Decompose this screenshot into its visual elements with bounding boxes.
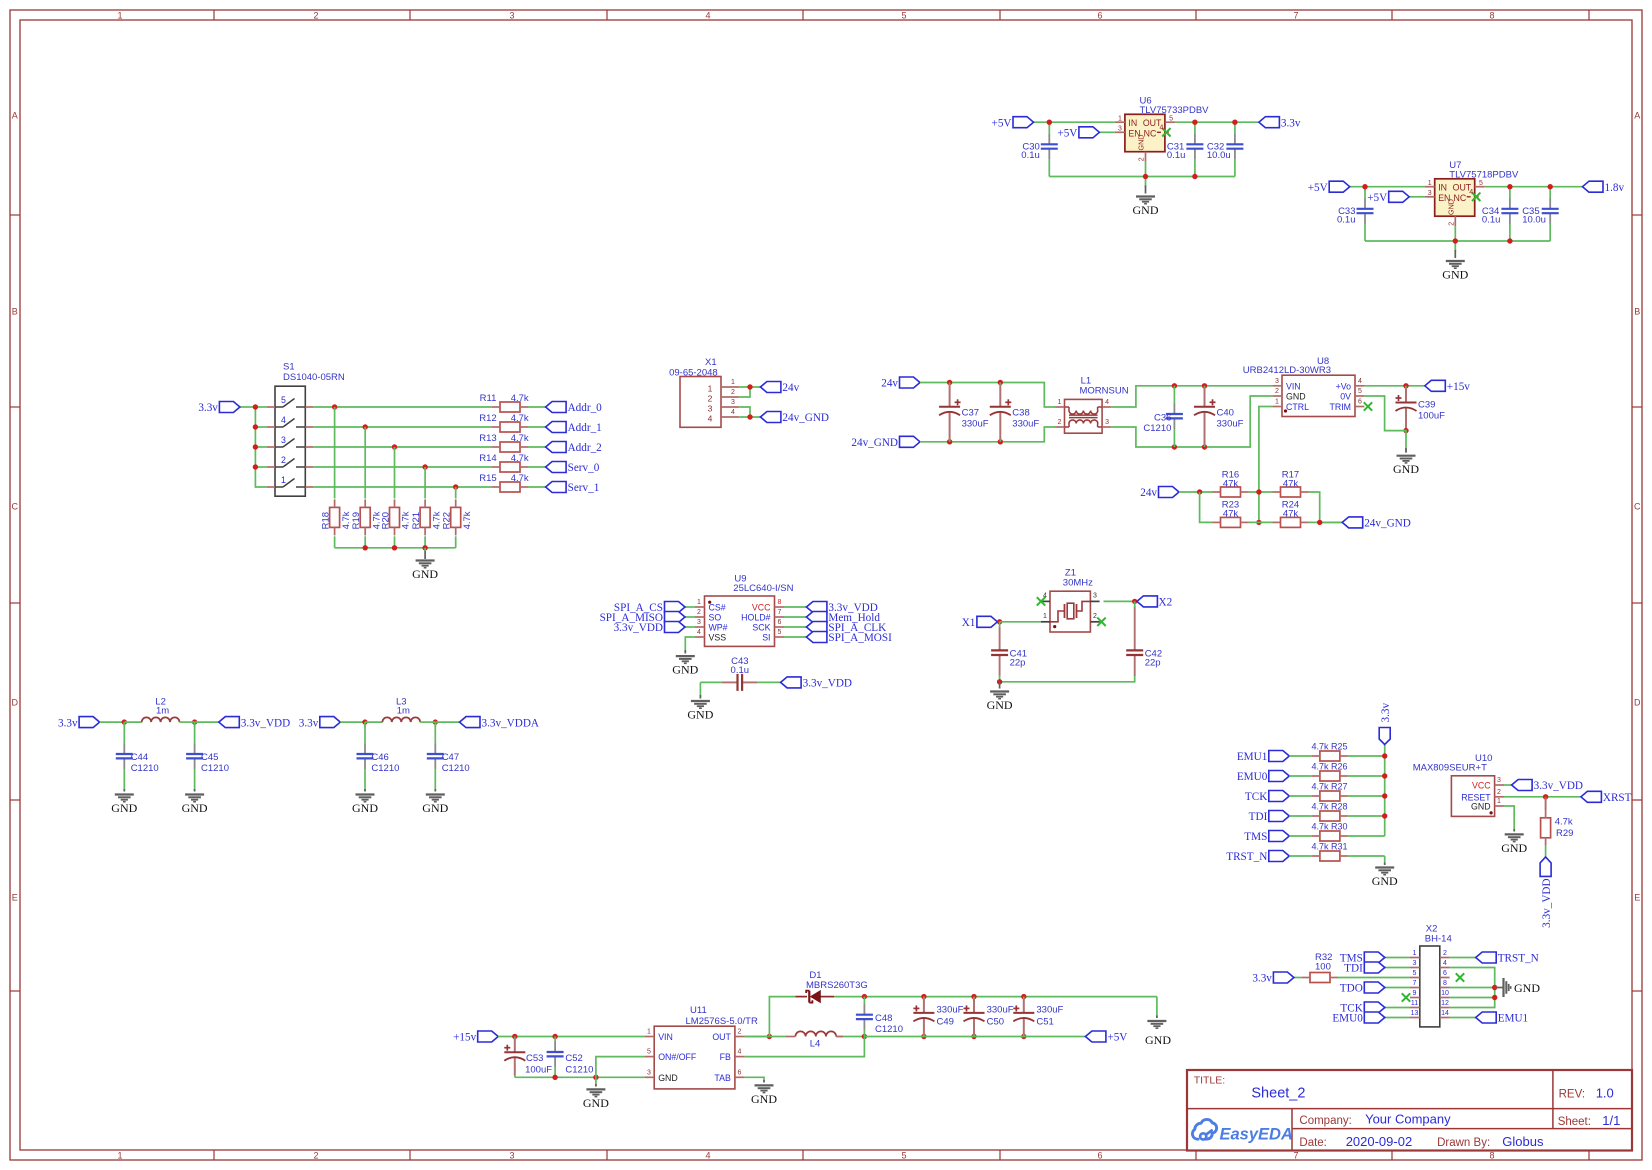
svg-text:Globus: Globus xyxy=(1502,1134,1544,1149)
svg-text:4.7k: 4.7k xyxy=(511,393,529,404)
svg-text:GND: GND xyxy=(658,1073,678,1083)
svg-text:47k: 47k xyxy=(1223,479,1239,490)
svg-text:4.7k R28: 4.7k R28 xyxy=(1312,802,1348,812)
svg-text:3: 3 xyxy=(509,1150,514,1160)
svg-text:30MHz: 30MHz xyxy=(1063,578,1093,589)
svg-text:URB2412LD-30WR3: URB2412LD-30WR3 xyxy=(1243,365,1331,376)
svg-text:ON#/OFF: ON#/OFF xyxy=(658,1052,697,1062)
svg-text:GND: GND xyxy=(412,567,438,581)
svg-text:Addr_0: Addr_0 xyxy=(568,402,603,414)
svg-text:7: 7 xyxy=(1413,980,1417,987)
svg-text:TLV75718PDBV: TLV75718PDBV xyxy=(1449,169,1519,180)
svg-text:R22: R22 xyxy=(442,512,453,529)
svg-text:C49: C49 xyxy=(937,1016,954,1027)
svg-text:2: 2 xyxy=(1448,222,1455,226)
svg-text:6: 6 xyxy=(738,1069,742,1076)
svg-text:VSS: VSS xyxy=(709,633,727,643)
svg-text:C1210: C1210 xyxy=(201,763,229,774)
svg-text:3.3v: 3.3v xyxy=(1281,117,1301,129)
svg-text:EasyEDA: EasyEDA xyxy=(1220,1126,1293,1144)
svg-text:5: 5 xyxy=(1413,970,1417,977)
svg-text:C1210: C1210 xyxy=(442,763,470,774)
svg-text:SO: SO xyxy=(709,613,722,623)
svg-text:Addr_1: Addr_1 xyxy=(568,422,602,434)
svg-text:3: 3 xyxy=(1118,126,1122,133)
svg-text:4.7k: 4.7k xyxy=(1555,817,1573,828)
svg-text:2: 2 xyxy=(313,1150,318,1160)
svg-text:HOLD#: HOLD# xyxy=(741,613,770,623)
svg-text:VCC: VCC xyxy=(1472,781,1491,791)
svg-text:6: 6 xyxy=(778,619,782,626)
svg-text:3: 3 xyxy=(708,404,713,414)
svg-text:3: 3 xyxy=(1413,960,1417,967)
svg-text:MORNSUN: MORNSUN xyxy=(1080,386,1129,397)
svg-text:47k: 47k xyxy=(1283,509,1299,520)
svg-text:C1210: C1210 xyxy=(875,1024,903,1035)
svg-text:330uF: 330uF xyxy=(937,1004,964,1015)
svg-text:C36: C36 xyxy=(1154,412,1171,423)
svg-text:1m: 1m xyxy=(397,706,410,717)
svg-text:C39: C39 xyxy=(1418,400,1435,411)
svg-text:R13: R13 xyxy=(479,433,496,444)
svg-text:TITLE:: TITLE: xyxy=(1194,1074,1226,1086)
svg-text:C40: C40 xyxy=(1217,408,1234,419)
svg-text:4: 4 xyxy=(281,415,286,425)
svg-text:330uF: 330uF xyxy=(1012,419,1039,430)
svg-text:5: 5 xyxy=(778,629,782,636)
svg-text:5: 5 xyxy=(281,395,286,405)
svg-text:4.7k R30: 4.7k R30 xyxy=(1312,822,1348,832)
svg-text:5: 5 xyxy=(901,1150,906,1160)
svg-text:4.7k R25: 4.7k R25 xyxy=(1312,742,1348,752)
svg-text:5: 5 xyxy=(901,10,906,20)
svg-text:1: 1 xyxy=(281,475,286,485)
svg-text:GND: GND xyxy=(751,1092,777,1106)
svg-text:OUT: OUT xyxy=(712,1032,731,1042)
svg-text:+5V: +5V xyxy=(1057,128,1077,140)
svg-text:CTRL: CTRL xyxy=(1286,402,1309,412)
svg-text:R29: R29 xyxy=(1556,828,1573,839)
svg-text:5: 5 xyxy=(1479,180,1483,187)
svg-text:MAX809SEUR+T: MAX809SEUR+T xyxy=(1413,763,1487,774)
svg-text:4: 4 xyxy=(1105,399,1109,406)
svg-text:1.8v: 1.8v xyxy=(1605,182,1625,194)
svg-text:S1: S1 xyxy=(283,361,295,372)
svg-text:DS1040-05RN: DS1040-05RN xyxy=(283,372,345,383)
svg-text:6: 6 xyxy=(1443,970,1447,977)
svg-text:2: 2 xyxy=(281,455,286,465)
svg-text:10.0u: 10.0u xyxy=(1522,215,1546,226)
svg-text:3.3v: 3.3v xyxy=(198,402,218,414)
svg-text:VIN: VIN xyxy=(1286,381,1301,391)
svg-text:C38: C38 xyxy=(1012,408,1029,419)
svg-text:3.3v_VDD: 3.3v_VDD xyxy=(1541,878,1553,927)
svg-text:C1210: C1210 xyxy=(1143,423,1171,434)
svg-text:1: 1 xyxy=(117,1150,122,1160)
svg-text:EMU1: EMU1 xyxy=(1498,1013,1528,1025)
svg-text:TRST_N: TRST_N xyxy=(1498,953,1539,965)
svg-text:GND: GND xyxy=(1514,981,1540,995)
svg-text:6: 6 xyxy=(1097,1150,1102,1160)
svg-text:2: 2 xyxy=(738,1029,742,1036)
svg-text:4: 4 xyxy=(738,1049,742,1056)
svg-text:GND: GND xyxy=(352,801,378,815)
svg-text:VCC: VCC xyxy=(752,603,771,613)
svg-text:4.7k R31: 4.7k R31 xyxy=(1312,842,1348,852)
svg-text:330uF: 330uF xyxy=(1217,419,1244,430)
svg-text:24v: 24v xyxy=(782,382,799,394)
svg-text:24v_GND: 24v_GND xyxy=(851,437,898,449)
svg-text:3: 3 xyxy=(1497,777,1501,784)
svg-text:Date:: Date: xyxy=(1299,1137,1327,1149)
svg-text:GND: GND xyxy=(1501,841,1527,855)
svg-text:25LC640-I/SN: 25LC640-I/SN xyxy=(733,583,793,594)
svg-text:3: 3 xyxy=(281,435,286,445)
svg-text:22p: 22p xyxy=(1145,658,1161,669)
svg-text:12: 12 xyxy=(1441,1000,1449,1007)
svg-text:22p: 22p xyxy=(1010,658,1026,669)
svg-text:2: 2 xyxy=(1275,388,1279,395)
svg-text:R19: R19 xyxy=(351,512,362,529)
svg-text:L4: L4 xyxy=(810,1039,821,1050)
svg-text:1: 1 xyxy=(708,384,713,394)
svg-text:+5V: +5V xyxy=(1367,192,1387,204)
svg-text:8: 8 xyxy=(1489,10,1494,20)
svg-text:330uF: 330uF xyxy=(962,419,989,430)
svg-text:3.3v: 3.3v xyxy=(1252,973,1272,985)
svg-text:C: C xyxy=(12,501,19,511)
svg-text:3: 3 xyxy=(647,1069,651,1076)
svg-text:8: 8 xyxy=(1443,980,1447,987)
svg-text:GND: GND xyxy=(1372,874,1398,888)
svg-text:EMU0: EMU0 xyxy=(1332,1013,1363,1025)
svg-text:8: 8 xyxy=(1489,1150,1494,1160)
svg-text:3: 3 xyxy=(509,10,514,20)
svg-text:MBRS260T3G: MBRS260T3G xyxy=(806,980,868,991)
svg-text:Sheet_2: Sheet_2 xyxy=(1251,1086,1305,1102)
svg-text:1: 1 xyxy=(697,599,701,606)
svg-text:TMS: TMS xyxy=(1244,831,1267,843)
svg-text:1.0: 1.0 xyxy=(1596,1086,1614,1101)
svg-text:7: 7 xyxy=(1293,1150,1298,1160)
svg-text:8: 8 xyxy=(778,599,782,606)
svg-text:SI: SI xyxy=(762,633,770,643)
svg-text:D: D xyxy=(12,697,19,707)
svg-text:E: E xyxy=(12,892,18,902)
svg-text:4.7k: 4.7k xyxy=(511,473,529,484)
svg-text:6: 6 xyxy=(1358,399,1362,406)
svg-text:7: 7 xyxy=(1293,10,1298,20)
svg-text:GND: GND xyxy=(111,801,137,815)
svg-text:100uF: 100uF xyxy=(525,1065,552,1076)
svg-text:3.3v_VDD: 3.3v_VDD xyxy=(241,717,290,729)
svg-text:3.3v_VDDA: 3.3v_VDDA xyxy=(482,717,540,729)
svg-text:3: 3 xyxy=(1428,190,1432,197)
svg-text:C50: C50 xyxy=(987,1016,1004,1027)
svg-text:X2: X2 xyxy=(1159,597,1173,609)
svg-text:3.3v_VDD: 3.3v_VDD xyxy=(614,622,663,634)
svg-text:C47: C47 xyxy=(442,752,459,763)
svg-text:2: 2 xyxy=(731,389,735,396)
svg-text:1: 1 xyxy=(117,10,122,20)
svg-text:TAB: TAB xyxy=(714,1073,731,1083)
svg-text:5: 5 xyxy=(1169,116,1173,123)
svg-text:EMU1: EMU1 xyxy=(1237,751,1267,763)
svg-text:Your Company: Your Company xyxy=(1365,1111,1451,1126)
svg-text:14: 14 xyxy=(1441,1010,1449,1017)
svg-text:4: 4 xyxy=(1469,189,1473,196)
svg-text:2: 2 xyxy=(1497,789,1501,796)
svg-text:R11: R11 xyxy=(480,393,497,404)
svg-text:C51: C51 xyxy=(1036,1016,1053,1027)
svg-text:C1210: C1210 xyxy=(131,763,159,774)
svg-text:GND: GND xyxy=(687,708,713,722)
svg-text:C46: C46 xyxy=(371,752,388,763)
svg-text:3: 3 xyxy=(731,399,735,406)
svg-text:WP#: WP# xyxy=(709,623,728,633)
svg-text:R15: R15 xyxy=(479,473,496,484)
svg-text:2: 2 xyxy=(1139,157,1146,161)
svg-text:4.7k R27: 4.7k R27 xyxy=(1312,782,1348,792)
svg-text:0.1u: 0.1u xyxy=(1021,150,1040,161)
svg-text:TDI: TDI xyxy=(1344,963,1363,975)
svg-text:R20: R20 xyxy=(380,512,391,529)
svg-text:GND: GND xyxy=(1133,203,1159,217)
svg-text:0.1u: 0.1u xyxy=(1482,215,1501,226)
svg-text:3.3v_VDD: 3.3v_VDD xyxy=(1534,780,1583,792)
svg-text:4: 4 xyxy=(1159,125,1163,132)
svg-text:3.3v: 3.3v xyxy=(299,717,319,729)
svg-text:C48: C48 xyxy=(875,1013,892,1024)
svg-text:XRST: XRST xyxy=(1603,792,1632,804)
svg-text:X1: X1 xyxy=(962,617,976,629)
svg-text:A: A xyxy=(1634,110,1640,120)
svg-text:GND: GND xyxy=(1447,199,1456,215)
svg-text:SCK: SCK xyxy=(752,623,770,633)
svg-text:0.1u: 0.1u xyxy=(731,665,750,676)
svg-text:GND: GND xyxy=(1393,462,1419,476)
svg-text:GND: GND xyxy=(1137,135,1146,151)
svg-text:IN: IN xyxy=(1438,183,1447,193)
svg-text:C1210: C1210 xyxy=(565,1065,593,1076)
svg-text:2: 2 xyxy=(313,10,318,20)
svg-text:2: 2 xyxy=(1443,950,1447,957)
svg-text:24v: 24v xyxy=(881,378,898,390)
svg-text:1: 1 xyxy=(647,1029,651,1036)
svg-text:TRIM: TRIM xyxy=(1330,402,1352,412)
svg-text:R18: R18 xyxy=(320,512,331,529)
svg-text:3.3v: 3.3v xyxy=(1380,703,1392,723)
svg-text:10: 10 xyxy=(1441,990,1449,997)
svg-text:LM2576S-5.0/TR: LM2576S-5.0/TR xyxy=(686,1016,758,1027)
svg-text:GND: GND xyxy=(182,801,208,815)
svg-text:BH-14: BH-14 xyxy=(1425,934,1452,945)
svg-text:47k: 47k xyxy=(1223,509,1239,520)
svg-text:24v_GND: 24v_GND xyxy=(1364,518,1411,530)
svg-text:4: 4 xyxy=(1443,960,1447,967)
svg-text:47k: 47k xyxy=(1283,479,1299,490)
svg-text:330uF: 330uF xyxy=(987,1004,1014,1015)
svg-text:1: 1 xyxy=(1275,399,1279,406)
svg-text:0V: 0V xyxy=(1340,392,1351,402)
svg-text:Sheet:: Sheet: xyxy=(1558,1116,1591,1128)
svg-text:7: 7 xyxy=(778,609,782,616)
svg-text:2: 2 xyxy=(697,609,701,616)
svg-text:09-65-2048: 09-65-2048 xyxy=(669,367,718,378)
svg-text:SPI_A_MOSI: SPI_A_MOSI xyxy=(828,632,892,644)
svg-text:1: 1 xyxy=(1043,613,1047,620)
svg-text:C37: C37 xyxy=(962,408,979,419)
svg-text:FB: FB xyxy=(720,1052,731,1062)
svg-text:24v_GND: 24v_GND xyxy=(782,412,829,424)
svg-text:4: 4 xyxy=(731,409,735,416)
svg-text:R14: R14 xyxy=(479,453,496,464)
svg-text:3: 3 xyxy=(697,619,701,626)
svg-text:1m: 1m xyxy=(156,706,169,717)
svg-text:R21: R21 xyxy=(411,512,422,529)
svg-text:C45: C45 xyxy=(201,752,218,763)
svg-text:1: 1 xyxy=(1497,798,1501,805)
svg-text:10.0u: 10.0u xyxy=(1207,150,1231,161)
svg-text:1/1: 1/1 xyxy=(1602,1113,1620,1128)
svg-text:4.7k: 4.7k xyxy=(511,413,529,424)
svg-text:Serv_1: Serv_1 xyxy=(568,482,600,494)
svg-text:Addr_2: Addr_2 xyxy=(568,442,602,454)
svg-text:2: 2 xyxy=(708,394,713,404)
svg-text:24v: 24v xyxy=(1140,487,1157,499)
svg-text:4.7k R26: 4.7k R26 xyxy=(1312,762,1348,772)
svg-text:GND: GND xyxy=(672,663,698,677)
svg-text:2: 2 xyxy=(1058,419,1062,426)
svg-text:GND: GND xyxy=(583,1096,609,1110)
svg-text:100uF: 100uF xyxy=(1418,411,1445,422)
svg-text:A: A xyxy=(12,110,18,120)
svg-text:4: 4 xyxy=(697,629,701,636)
svg-text:3: 3 xyxy=(1093,593,1097,600)
svg-text:CS#: CS# xyxy=(709,603,726,613)
svg-text:C1210: C1210 xyxy=(371,763,399,774)
svg-text:U11: U11 xyxy=(690,1005,707,1016)
svg-text:C52: C52 xyxy=(565,1053,582,1064)
svg-text:TDO: TDO xyxy=(1340,983,1363,995)
svg-text:GND: GND xyxy=(1286,392,1306,402)
svg-text:R12: R12 xyxy=(479,413,496,424)
svg-text:5: 5 xyxy=(647,1049,651,1056)
svg-text:1: 1 xyxy=(731,379,735,386)
svg-text:1: 1 xyxy=(1118,116,1122,123)
svg-text:4: 4 xyxy=(1358,378,1362,385)
svg-text:6: 6 xyxy=(1097,10,1102,20)
svg-text:1: 1 xyxy=(1413,950,1417,957)
svg-text:D: D xyxy=(1634,697,1641,707)
svg-text:9: 9 xyxy=(1413,990,1417,997)
svg-text:5: 5 xyxy=(1358,388,1362,395)
svg-text:GND: GND xyxy=(1442,268,1468,282)
svg-text:2020-09-02: 2020-09-02 xyxy=(1346,1134,1413,1149)
svg-text:4.7k: 4.7k xyxy=(462,511,473,529)
svg-text:+Vo: +Vo xyxy=(1336,381,1352,391)
svg-text:3.3v: 3.3v xyxy=(58,717,78,729)
svg-text:3: 3 xyxy=(1275,378,1279,385)
svg-text:GND: GND xyxy=(1145,1033,1171,1047)
svg-text:4: 4 xyxy=(705,1150,710,1160)
svg-text:E: E xyxy=(1634,892,1640,902)
svg-text:100: 100 xyxy=(1315,961,1331,972)
svg-text:4: 4 xyxy=(1043,593,1047,600)
svg-text:+5V: +5V xyxy=(992,117,1012,129)
svg-text:GND: GND xyxy=(422,801,448,815)
svg-text:B: B xyxy=(1634,306,1640,316)
svg-text:11: 11 xyxy=(1411,1000,1418,1007)
svg-text:0.1u: 0.1u xyxy=(1337,215,1356,226)
svg-text:+5V: +5V xyxy=(1107,1032,1127,1044)
svg-text:330uF: 330uF xyxy=(1036,1004,1063,1015)
svg-text:TLV75733PDBV: TLV75733PDBV xyxy=(1140,105,1210,116)
svg-text:Drawn By:: Drawn By: xyxy=(1437,1137,1490,1149)
svg-text:TRST_N: TRST_N xyxy=(1226,851,1267,863)
svg-text:GND: GND xyxy=(1471,802,1491,812)
svg-text:+15v: +15v xyxy=(1447,381,1470,393)
svg-text:1: 1 xyxy=(1058,399,1062,406)
svg-text:C44: C44 xyxy=(131,752,148,763)
svg-text:1: 1 xyxy=(1428,180,1432,187)
svg-text:4.7k: 4.7k xyxy=(511,433,529,444)
svg-text:IN: IN xyxy=(1128,118,1137,128)
svg-text:3.3v_VDD: 3.3v_VDD xyxy=(803,678,852,690)
svg-text:C: C xyxy=(1634,501,1641,511)
svg-text:+5V: +5V xyxy=(1308,182,1328,194)
svg-text:13: 13 xyxy=(1411,1010,1419,1017)
svg-text:REV:: REV: xyxy=(1559,1089,1585,1101)
svg-text:EMU0: EMU0 xyxy=(1237,771,1268,783)
svg-text:TDI: TDI xyxy=(1249,811,1268,823)
svg-text:2: 2 xyxy=(1093,613,1097,620)
svg-text:Company:: Company: xyxy=(1299,1115,1351,1127)
svg-text:TCK: TCK xyxy=(1245,791,1267,803)
svg-text:B: B xyxy=(12,306,18,316)
svg-text:4: 4 xyxy=(705,10,710,20)
svg-text:VIN: VIN xyxy=(658,1032,673,1042)
svg-text:4: 4 xyxy=(708,414,713,424)
svg-text:C53: C53 xyxy=(526,1053,543,1064)
svg-text:3: 3 xyxy=(1105,419,1109,426)
svg-text:GND: GND xyxy=(987,698,1013,712)
svg-text:Serv_0: Serv_0 xyxy=(568,462,600,474)
svg-text:4.7k: 4.7k xyxy=(511,453,529,464)
svg-text:+15v: +15v xyxy=(453,1032,476,1044)
svg-text:0.1u: 0.1u xyxy=(1167,150,1186,161)
